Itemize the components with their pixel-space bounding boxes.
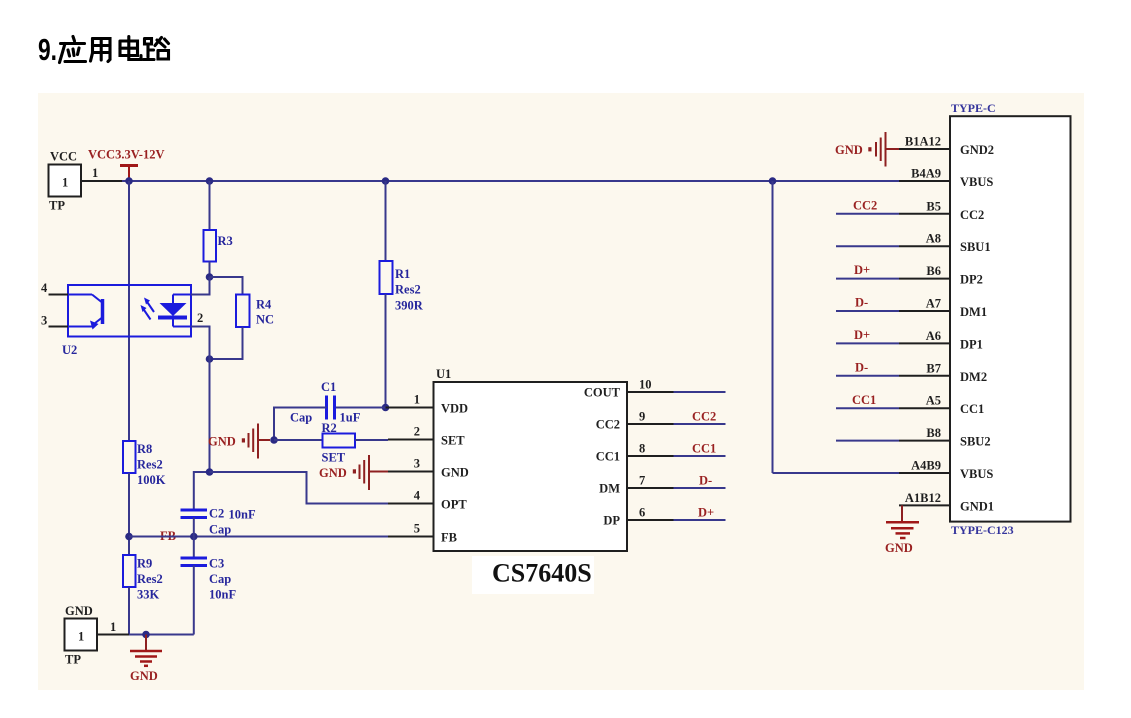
svg-text:10nF: 10nF [209,588,236,602]
wire C1 right to VDD node [335,407,386,409]
svg-text:1: 1 [414,393,420,407]
svg-text:A5: A5 [926,394,941,408]
wire rail to R3 [209,181,211,230]
svg-text:CC2: CC2 [853,198,877,212]
wire R1 to VDD node [385,294,387,408]
power ground GND at SET node [208,424,270,459]
wire OPT node to C2 [194,472,210,510]
svg-text:VDD: VDD [441,402,468,416]
testpoint TP VCC [49,150,82,213]
svg-text:Res2: Res2 [395,283,421,297]
svg-text:9: 9 [639,410,645,424]
svg-text:CC2: CC2 [692,410,716,424]
svg-text:VBUS: VBUS [960,175,993,189]
capacitor C1 [290,380,361,425]
ground GND earth (bottom left) [130,635,162,684]
svg-text:1: 1 [62,176,68,190]
svg-text:R8: R8 [137,442,152,456]
junction bottom GND [142,631,150,639]
pin A5 CC1 [836,393,984,416]
svg-text:DM2: DM2 [960,370,987,384]
svg-text:1uF: 1uF [340,411,361,425]
svg-text:2: 2 [414,425,420,439]
phototransistor of U2 [68,295,103,330]
svg-text:A6: A6 [926,329,941,343]
wire GND node to R2 [274,439,323,441]
svg-text:R2: R2 [322,421,337,435]
pin A4B9 VBUS [899,459,993,482]
svg-text:33K: 33K [137,588,160,602]
pin 6 of U1 [627,506,674,521]
svg-text:A7: A7 [926,297,941,311]
svg-text:VCC: VCC [50,150,77,164]
svg-text:C3: C3 [209,557,224,571]
svg-text:TP: TP [65,653,81,667]
svg-text:GND: GND [65,604,93,618]
wire node down to OPT junction [209,359,211,472]
svg-text:CC1: CC1 [852,393,876,407]
wire D+ net [674,519,726,521]
pin B4A9 VBUS [911,167,993,190]
svg-text:Cap: Cap [290,411,312,425]
junction VCC rail at R3 [206,177,214,185]
junction VCC rail at TYPE-C [769,177,777,185]
wire VBUS to A4B9 [773,472,900,474]
svg-text:R9: R9 [137,557,152,571]
junction VCC rail at R1 [382,177,390,185]
resistor R8 [123,441,166,487]
pin 9 of U1 [627,410,674,425]
pin 4 of U2 [49,294,69,296]
svg-text:A8: A8 [926,232,941,246]
svg-text:3: 3 [414,457,420,471]
power ground GND at GND2 [835,132,899,167]
pin B8 SBU2 [836,426,991,449]
svg-text:GND: GND [835,143,863,157]
svg-text:1: 1 [110,620,116,634]
svg-text:DP: DP [603,514,620,528]
hanzi 用 [91,39,111,62]
wire R2 to pin 2 [355,439,388,441]
pin 1 of TP VCC [81,166,124,181]
svg-text:7: 7 [639,474,645,488]
svg-text:VCC3.3V-12V: VCC3.3V-12V [88,148,165,162]
wire VBUS vertical drop [772,181,774,473]
svg-text:DP2: DP2 [960,273,983,287]
svg-text:D-: D- [855,360,868,374]
svg-text:Cap: Cap [209,572,231,586]
svg-text:2: 2 [197,311,203,325]
pin B1A12 GND2 [899,135,994,158]
wire FB horizontal [129,536,388,538]
title 9.应用电路 [38,32,169,67]
wire C1 left to GND node [274,408,327,441]
resistor R3 [204,230,233,262]
svg-text:B4A9: B4A9 [911,167,941,181]
pin A8 SBU1 [836,232,991,255]
svg-text:B6: B6 [926,264,941,278]
svg-text:D-: D- [699,474,712,488]
svg-text:Res2: Res2 [137,572,163,586]
power port VCC3.3V-12V [88,148,165,182]
wire COUT net [674,391,726,393]
wire FB to C3 [193,537,195,559]
pin 3 of U2 [49,326,69,328]
testpoint TP GND [65,604,98,667]
hanzi 路 [144,38,169,60]
svg-text:GND: GND [441,466,469,480]
svg-text:CC1: CC1 [692,442,716,456]
svg-text:D+: D+ [854,328,870,342]
hanzi 电 [120,37,141,60]
svg-text:SBU1: SBU1 [960,240,991,254]
wire D- net [674,487,726,489]
pin 1 of TP GND [97,620,135,635]
wire rail to R1 [385,181,387,261]
power ground GND at pin 3 [319,455,388,490]
pin 3 stub of U1 [388,471,434,473]
svg-text:D+: D+ [854,263,870,277]
svg-text:4: 4 [414,489,421,503]
svg-text:A1B12: A1B12 [905,491,941,505]
junction node R4/pin2 [206,355,214,363]
svg-text:DP1: DP1 [960,337,983,351]
wire OPT node to pin 4 [210,472,389,504]
pin 1 stub of U1 [386,407,434,409]
junction VCC rail at power port [125,177,133,185]
svg-text:R3: R3 [218,234,233,248]
svg-text:SBU2: SBU2 [960,435,991,449]
pin 5 stub of U1 [388,536,434,538]
pin A6 DP1 [836,328,983,352]
svg-text:TYPE-C123: TYPE-C123 [951,523,1014,537]
svg-text:8: 8 [639,442,645,456]
svg-text:TP: TP [49,199,65,213]
svg-text:3: 3 [41,314,47,328]
wire node to R4 top [210,277,243,295]
wire U2 collector to node [191,277,210,295]
wire R8 to FB node [128,473,130,555]
resistor R1 [380,261,424,313]
svg-text:6: 6 [639,506,645,520]
wire VCC rail [122,180,899,182]
resistor R4 [236,295,274,328]
svg-text:CC1: CC1 [596,450,620,464]
svg-text:GND: GND [130,669,158,683]
svg-text:GND: GND [208,435,236,449]
svg-text:B7: B7 [926,361,941,375]
svg-text:1: 1 [92,166,98,180]
wire R3 to node [209,262,211,278]
svg-text:GND2: GND2 [960,143,994,157]
junction FB at R8 branch [125,533,133,541]
svg-text:COUT: COUT [584,386,621,400]
svg-text:9.: 9. [38,32,57,67]
junction node R3/R4/opto [206,273,214,281]
IC U1 CS7640S [414,367,627,551]
pin 7 of U1 [627,474,674,489]
wire R4 bottom to node [210,327,243,359]
svg-text:D+: D+ [698,506,714,520]
schematic background canvas [38,93,1084,690]
wire R9 to bottom rail [128,587,130,635]
wire CC2 net [674,423,726,425]
resistor R2 [322,421,356,465]
svg-text:DM1: DM1 [960,305,987,319]
svg-text:CS7640S: CS7640S [492,559,592,588]
capacitor C2 [181,507,256,537]
wire bottom GND rail [129,634,194,636]
LED of U2 [158,295,191,327]
hanzi 应 [60,37,86,63]
svg-text:CC2: CC2 [596,418,620,432]
svg-text:A4B9: A4B9 [911,459,941,473]
svg-text:5: 5 [414,522,420,536]
svg-text:NC: NC [256,313,274,327]
pin A1B12 GND1 [899,491,994,514]
svg-text:C1: C1 [321,380,336,394]
junction OPT node [206,468,214,476]
svg-text:CC2: CC2 [960,208,984,222]
pin B5 CC2 [836,198,984,222]
junction SET GND node [270,436,278,444]
svg-text:U1: U1 [436,367,451,381]
pin 10 of U1 [627,378,674,393]
svg-text:R1: R1 [395,267,410,281]
svg-text:GND: GND [885,541,913,555]
junction VDD node [382,404,390,412]
ground GND earth at GND1 [885,505,919,555]
pin 2 stub of U1 [388,439,434,441]
svg-text:10nF: 10nF [229,508,256,522]
resistor R9 [123,555,163,602]
svg-text:DM: DM [599,482,620,496]
wire C2 to FB [193,518,195,537]
pin stub VBUS B4A9 [899,180,950,182]
svg-text:GND: GND [319,466,347,480]
svg-text:D-: D- [855,296,868,310]
svg-text:SET: SET [322,451,346,465]
svg-text:10: 10 [639,378,652,392]
svg-text:TYPE-C: TYPE-C [951,101,996,115]
svg-text:100K: 100K [137,473,166,487]
pin 8 of U1 [627,442,674,457]
light arrows of U2 [141,298,155,320]
wire vertical VCC branch to R8 [128,181,130,441]
pin 2 wire of U2 [191,311,210,359]
optocoupler U2 [41,281,191,357]
svg-text:SET: SET [441,434,465,448]
pin B7 DM2 [836,360,987,384]
svg-text:1: 1 [78,630,84,644]
connector TYPE-C [950,101,1071,537]
pin A7 DM1 [836,296,987,320]
pin B6 DP2 [836,263,983,287]
wire C3 to bottom rail [193,566,195,635]
svg-text:4: 4 [41,281,48,295]
white patch behind part name [472,556,594,594]
svg-text:OPT: OPT [441,498,467,512]
svg-text:R4: R4 [256,298,272,312]
svg-text:GND1: GND1 [960,499,994,513]
svg-text:B5: B5 [926,199,941,213]
svg-text:CC1: CC1 [960,402,984,416]
junction FB at C2/C3 [190,533,198,541]
svg-text:C2: C2 [209,507,224,521]
pin 4 stub of U1 [388,503,434,505]
wire CC1 net [674,455,726,457]
svg-text:Res2: Res2 [137,458,163,472]
svg-text:B1A12: B1A12 [905,135,941,149]
svg-text:U2: U2 [62,343,77,357]
svg-text:390R: 390R [395,299,424,313]
capacitor C3 [181,557,237,602]
svg-text:Cap: Cap [209,523,231,537]
svg-text:VBUS: VBUS [960,467,993,481]
svg-text:FB: FB [441,531,457,545]
svg-text:B8: B8 [926,426,941,440]
